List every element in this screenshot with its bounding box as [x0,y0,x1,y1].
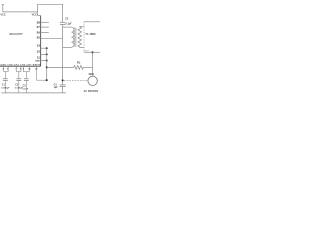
capacitor C2 top plate [16,78,21,80]
wire group B bar [17,71,22,73]
AC source circle [88,76,97,85]
pin 4 stub [41,47,47,49]
pin 7 stub [41,26,49,28]
svg-text:11: 11 [37,56,40,60]
wire secondary bottom lead [80,46,84,49]
wire transformer primary top [63,26,72,28]
svg-text:25: 25 [37,35,41,39]
svg-text:12: 12 [37,50,41,54]
wire [83,66,92,68]
transformer T1 secondary winding [78,27,82,47]
pin stub bottom [16,66,18,71]
wire [5,81,7,93]
capacitor C1 top plate [3,78,8,80]
power terminal VCC [2,4,4,6]
wire [38,15,41,17]
pin 8 stub [41,21,49,23]
wire center vertical [62,25,64,85]
capacitor C3 top plate [24,78,29,80]
junction [46,79,48,81]
svg-text:7: 7 [15,69,17,71]
pin stub bottom [7,66,9,71]
svg-text:60Hz: 60Hz [89,73,95,76]
wire [38,4,63,22]
junction [46,60,48,62]
svg-text:9: 9 [23,69,25,71]
svg-text:VCC: VCC [0,14,5,17]
svg-text:C2: C2 [15,85,19,87]
connector box top edge [84,21,100,23]
svg-text:1µF: 1µF [54,87,59,89]
svg-text:MAX3157: MAX3157 [9,32,23,36]
svg-text:T1–78B8: T1–78B8 [85,33,96,36]
svg-text:C5: C5 [65,17,69,20]
op-amp U1 MAX3157 IC bottom edge [0,65,41,67]
capacitor C5 top plate [60,21,65,23]
junction [46,66,48,68]
svg-text:4: 4 [7,68,9,71]
svg-text:8: 8 [20,69,22,71]
wire transformer primary bottom [63,46,72,48]
resistor RL [74,66,84,70]
wire pin 5 to transformer [41,38,63,40]
wire [2,5,4,12]
svg-text:13: 13 [37,44,41,48]
capacitor C3 bottom plate [24,80,29,82]
pin 6 stub [41,32,49,34]
wire [5,72,7,79]
wire [25,81,27,93]
wire [25,72,27,79]
pin stub bottom [36,66,38,80]
junction [91,51,93,53]
wire [18,81,20,93]
dotted wire to AC source [64,79,88,81]
wire to resistor RL [47,66,74,68]
svg-text:26: 26 [37,31,41,35]
ground rail [2,92,66,94]
wire [18,72,20,79]
svg-text:0.1µF: 0.1µF [66,23,73,25]
svg-text:28: 28 [37,20,41,24]
svg-text:3: 3 [2,69,4,71]
svg-text:RL: RL [77,60,81,64]
transformer T1 primary winding [71,27,74,47]
pin stub bottom [3,66,5,71]
pin stub bottom [22,66,24,71]
wire [62,87,64,93]
transformer T1 core line 2 [75,28,77,47]
svg-text:AC SOURCE: AC SOURCE [84,90,99,93]
connector box left edge dashed [83,22,85,53]
capacitor C4 bottom plate [60,86,66,88]
svg-text:27: 27 [37,25,41,29]
pin stub bottom [28,66,30,71]
svg-text:0.1µF: 0.1µF [22,88,28,90]
svg-text:VCC: VCC [32,13,37,16]
wire to bus [37,79,47,81]
pin 2 stub [41,60,47,62]
wire group C bar [23,71,29,73]
capacitor C5 bottom plate [60,24,65,26]
connector box bottom edge [84,51,100,53]
svg-text:C1: C1 [2,85,6,87]
wire [3,11,38,13]
transformer T1 core line 1 [73,28,75,47]
junction [62,79,64,81]
wire secondary top lead [80,25,84,28]
wire transformer to AC source [92,52,94,76]
svg-text:10: 10 [28,69,31,71]
capacitor C2 bottom plate [16,80,21,82]
op-amp U1 MAX3157 IC right edge [40,16,42,67]
svg-text:C3: C3 [23,86,27,88]
svg-text:12: 12 [35,69,38,71]
capacitor C1 bottom plate [3,80,8,82]
junction [46,53,48,55]
pin stub bottom [20,66,22,71]
capacitor C4 top plate [60,84,66,86]
junction [46,47,48,49]
svg-text:RING: RING [84,50,90,52]
svg-text:GND CH4 CH3 CH2 CH1 REFIN: GND CH4 CH3 CH2 CH1 REFIN [0,64,41,67]
wire group A bar [4,71,9,73]
svg-text:0.047µF: 0.047µF [1,87,10,90]
bus wire [46,48,48,80]
svg-text:GND: GND [35,60,40,62]
pin 3 stub [41,53,47,55]
